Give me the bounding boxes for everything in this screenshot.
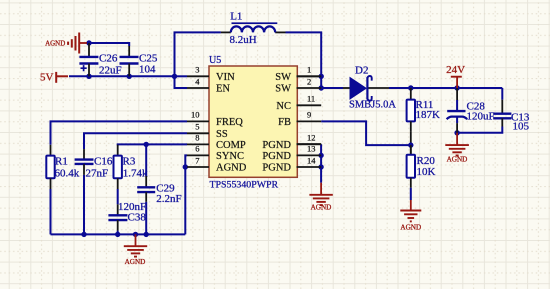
svg-text:14: 14	[307, 155, 316, 165]
junction SW pin 1	[319, 74, 324, 79]
wire C16 bottom to rail	[83, 175, 85, 235]
svg-text:1: 1	[307, 65, 311, 75]
junction ground stem / rail	[133, 232, 138, 237]
pin 5 (SS) of U5	[187, 122, 228, 140]
svg-text:104: 104	[139, 63, 156, 75]
wire SW pin1 stub to vertical	[297, 75, 322, 77]
wire PGND12 stub to vertical	[297, 143, 322, 145]
resistor R20	[407, 145, 415, 188]
svg-text:105: 105	[513, 121, 530, 133]
svg-text:SW: SW	[275, 72, 291, 83]
power port 24V	[446, 64, 465, 88]
junction SW pin 2 / D2	[319, 85, 324, 90]
resistor R11	[407, 88, 415, 131]
capacitor C16 (27nF)	[75, 149, 94, 175]
svg-text:10: 10	[191, 110, 200, 120]
wire VIN node up to top rail	[175, 32, 221, 76]
svg-text:AGND: AGND	[400, 224, 421, 232]
pin 1 (SW) of U5	[275, 65, 321, 83]
svg-text:22uF: 22uF	[99, 64, 122, 76]
svg-text:SMBJ5.0A: SMBJ5.0A	[349, 100, 396, 111]
capacitor C29 (2.2nF)	[137, 176, 155, 202]
svg-text:11: 11	[307, 94, 315, 104]
wire 24V node down to C13 top	[501, 88, 503, 100]
wire SS pin to C16 top	[84, 133, 187, 149]
svg-text:10K: 10K	[417, 166, 436, 178]
pin 14 (PGND) of U5	[262, 155, 321, 173]
wire top rail right of L1 down to SW pins	[286, 32, 322, 88]
svg-text:3: 3	[195, 65, 199, 75]
svg-text:COMP: COMP	[216, 140, 246, 151]
svg-text:R3: R3	[123, 156, 136, 168]
wire C29 bottom to rail	[145, 202, 147, 235]
svg-text:SS: SS	[216, 129, 228, 140]
wire C38 bottom to rail	[117, 231, 119, 235]
wire R3 top lead drop	[117, 144, 119, 145]
svg-text:L1: L1	[230, 11, 242, 23]
wire 5V rail to VIN node	[69, 75, 175, 77]
svg-text:PGND: PGND	[262, 163, 291, 174]
svg-text:C26: C26	[99, 53, 118, 65]
pin 8 (COMP) of U5	[187, 133, 246, 151]
wire D2 cathode to R11 node to 24V node	[389, 87, 502, 89]
svg-text:VIN: VIN	[216, 72, 235, 83]
pin 9 (FB) of U5	[278, 110, 321, 128]
svg-text:C38: C38	[128, 211, 147, 223]
pin 11 (NC) of U5	[276, 94, 321, 112]
pin 12 (PGND) of U5	[262, 133, 321, 151]
diode D2 (TVS)	[343, 76, 389, 101]
svg-text:AGND: AGND	[125, 258, 146, 266]
svg-text:FB: FB	[278, 117, 291, 128]
svg-text:PGND: PGND	[262, 151, 291, 162]
wire VIN node down to EN pin	[175, 76, 188, 88]
inductor L1	[221, 23, 286, 32]
svg-text:7: 7	[195, 155, 199, 165]
junction PGND14	[318, 164, 323, 169]
pin 7 (AGND) of U5	[187, 155, 247, 173]
svg-text:TPS55340PWPR: TPS55340PWPR	[210, 180, 279, 191]
wire C25 top lead corner	[128, 42, 130, 46]
junction COMP / C29	[144, 142, 149, 147]
junction R11 top	[408, 85, 413, 90]
svg-text:12: 12	[307, 133, 316, 143]
junction C29 / rail	[144, 232, 149, 237]
op-amp U5 body (TPS55340PWPR)	[209, 66, 297, 177]
svg-text:8: 8	[195, 133, 199, 143]
wire R3/C38 link	[117, 189, 119, 204]
wire AGND top-left to C26/C25 tops	[86, 42, 129, 44]
wire SYNC pin left and down	[185, 155, 187, 234]
svg-text:SW: SW	[275, 84, 291, 95]
wire R20 bottom to ground	[410, 188, 412, 200]
capacitor C25 (104)	[120, 46, 139, 76]
svg-text:5V: 5V	[40, 71, 54, 83]
capacitor C28 (polarized 120uF)	[447, 88, 468, 133]
resistor R3	[114, 145, 122, 189]
svg-text:187K: 187K	[416, 109, 441, 121]
svg-text:FREQ: FREQ	[216, 117, 243, 128]
svg-text:AGND: AGND	[447, 155, 468, 163]
svg-text:NC: NC	[276, 101, 291, 112]
junction C28 bottom	[454, 130, 459, 135]
junction FB / R11 / R20	[408, 142, 413, 147]
junction C38 / rail	[115, 232, 120, 237]
junction VIN node	[172, 74, 177, 79]
svg-text:9: 9	[307, 110, 311, 120]
svg-text:AGND: AGND	[216, 163, 247, 174]
svg-text:1.74k: 1.74k	[123, 167, 148, 179]
capacitor C13 (105)	[493, 100, 511, 127]
svg-text:C16: C16	[94, 156, 113, 168]
pin 13 (PGND) of U5	[262, 144, 321, 162]
wire bottom ground rail	[51, 233, 186, 235]
svg-text:24V: 24V	[446, 64, 465, 76]
svg-text:60.4k: 60.4k	[55, 167, 80, 179]
junction PGND13	[318, 153, 323, 158]
pin 6 (SYNC) of U5	[187, 144, 244, 162]
svg-text:6: 6	[195, 144, 199, 154]
wire AGND pin to vertical	[185, 166, 187, 168]
junction C26 top	[86, 40, 91, 45]
resistor R1	[46, 145, 54, 189]
wire R20 top from FB node	[410, 145, 412, 155]
wire C28 bottom node to C13 bottom	[457, 127, 502, 133]
ground AGND (below R20)	[400, 200, 421, 221]
svg-text:5: 5	[195, 122, 199, 132]
svg-text:AGND: AGND	[45, 39, 65, 47]
ground AGND (below PGND pins)	[309, 183, 332, 205]
wire PGND pins vertical	[320, 144, 322, 183]
svg-text:2.2nF: 2.2nF	[156, 193, 181, 205]
wire COMP pin to R3 top	[118, 143, 187, 145]
pin 10 (FREQ) of U5	[187, 110, 243, 128]
wire COMP branch down to C29	[145, 144, 147, 176]
capacitor C26 (polarized 22uF)	[79, 43, 98, 76]
wire R1 bottom to rail	[50, 189, 52, 234]
svg-text:27nF: 27nF	[86, 167, 109, 179]
svg-text:D2: D2	[355, 64, 368, 76]
capacitor C38 (120nF)	[108, 204, 127, 230]
pin 3 (VIN) of U5	[187, 65, 235, 83]
svg-text:2: 2	[307, 76, 311, 86]
svg-text:PGND: PGND	[262, 140, 291, 151]
svg-text:U5: U5	[209, 55, 221, 66]
svg-text:R1: R1	[55, 156, 68, 168]
junction 24V / C28 top	[454, 85, 459, 90]
junction C16 / rail	[81, 232, 86, 237]
wire R11 bottom to FB node	[410, 131, 412, 145]
pin 2 (SW) of U5	[275, 76, 321, 94]
wire VIN node to VIN pin	[175, 75, 188, 77]
svg-text:EN: EN	[216, 84, 230, 95]
junction AGND pin / sync vertical	[183, 164, 188, 169]
junction C26 bottom / 5V rail	[86, 74, 91, 79]
ground AGND (below C28)	[445, 133, 469, 156]
svg-text:120uF: 120uF	[467, 111, 495, 123]
ground AGND (below bottom rail)	[124, 234, 147, 256]
wire FREQ pin to R1 top	[51, 121, 188, 144]
junction C25 bottom / 5V rail	[127, 74, 132, 79]
svg-text:R20: R20	[417, 155, 436, 167]
wire SW node to D2 anode	[321, 87, 343, 89]
svg-text:8.2uH: 8.2uH	[230, 34, 257, 46]
ground AGND (top left, pointing left)	[68, 33, 87, 54]
power port 5V	[40, 71, 68, 83]
wire FB pin jog to R11/R20 node	[321, 121, 411, 145]
svg-text:SYNC: SYNC	[216, 151, 244, 162]
pin 4 (EN) of U5	[187, 76, 230, 94]
svg-text:AGND: AGND	[311, 204, 332, 212]
svg-text:13: 13	[307, 144, 316, 154]
